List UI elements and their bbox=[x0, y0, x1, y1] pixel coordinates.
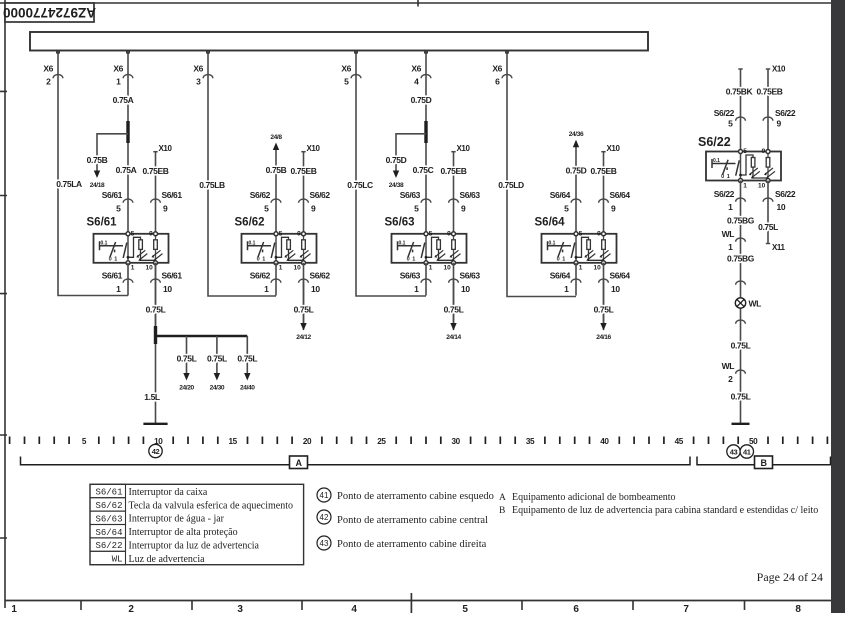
legend row WL bbox=[90, 551, 205, 565]
svg-text:0.75EB: 0.75EB bbox=[291, 166, 317, 176]
bottom column ticks bbox=[81, 601, 745, 611]
svg-text:WL: WL bbox=[722, 361, 735, 371]
svg-text:42: 42 bbox=[320, 513, 329, 522]
svg-text:S6/61: S6/61 bbox=[162, 190, 183, 200]
wire 0.75L from S6/61 pin10 bbox=[155, 263, 157, 424]
svg-text:S6/61: S6/61 bbox=[87, 217, 118, 229]
svg-text:2: 2 bbox=[128, 604, 134, 613]
wire S6/61 pin10 lead bbox=[155, 263, 157, 330]
wire 0.75LC (X6/5 to S6/63 pin1) bbox=[356, 62, 426, 296]
drawing number box AZ9724770000 (rotated 180) bbox=[3, 3, 96, 22]
svg-text:S6/62: S6/62 bbox=[250, 190, 271, 200]
svg-text:S6/22: S6/22 bbox=[698, 135, 731, 149]
svg-text:S6/22: S6/22 bbox=[775, 189, 796, 199]
svg-text:5: 5 bbox=[728, 119, 733, 129]
svg-text:0.75L: 0.75L bbox=[731, 392, 751, 402]
connector (unlabelled) bbox=[736, 281, 746, 285]
terminal X10 stub feeding S6/63 pin9 bbox=[451, 144, 470, 234]
svg-text:AZ9724770000: AZ9724770000 bbox=[3, 5, 96, 20]
svg-text:4: 4 bbox=[351, 604, 357, 613]
connector S6/22 pin 5 bbox=[714, 108, 746, 129]
svg-text:X6: X6 bbox=[113, 64, 123, 74]
svg-text:S6/63: S6/63 bbox=[460, 271, 481, 281]
svg-text:Ponto de aterramento cabine es: Ponto de aterramento cabine esquedo bbox=[337, 491, 494, 502]
connector strip X6 (bus bar) bbox=[30, 32, 648, 51]
svg-text:0.75LC: 0.75LC bbox=[347, 180, 373, 190]
connector WL pin 2 bbox=[722, 361, 746, 384]
svg-text:Equipamento adicional de bombe: Equipamento adicional de bombeamento bbox=[512, 492, 676, 503]
svg-text:0.75L: 0.75L bbox=[237, 354, 257, 364]
wire 0.75A from X6/1 bbox=[127, 62, 129, 234]
svg-text:9: 9 bbox=[163, 204, 168, 214]
svg-text:9: 9 bbox=[461, 204, 466, 214]
svg-text:0.75BG: 0.75BG bbox=[727, 254, 755, 264]
svg-text:5: 5 bbox=[264, 204, 269, 214]
svg-text:50: 50 bbox=[749, 437, 758, 446]
border frame top line bbox=[0, 2, 831, 4]
bracket B (range) bbox=[697, 456, 831, 469]
top column tick bbox=[417, 0, 419, 7]
svg-text:X10: X10 bbox=[457, 144, 471, 153]
bottom column rule bbox=[5, 600, 831, 602]
connector S6/63 pin 9 bbox=[449, 190, 481, 214]
legend ground point 43 bbox=[317, 536, 487, 550]
wire S6/62 pin10 lead bbox=[303, 263, 305, 330]
svg-text:Page 24 of 24: Page 24 of 24 bbox=[757, 570, 823, 584]
svg-text:X11: X11 bbox=[772, 243, 786, 252]
wire 0.75L branch to 24/20 bbox=[177, 336, 197, 392]
svg-text:WL: WL bbox=[722, 229, 735, 239]
wire 0.75LB (X6/3 to S6/62 pin1) bbox=[208, 62, 276, 296]
svg-text:0.75L: 0.75L bbox=[294, 305, 314, 315]
connector S6/62 pin 9 bbox=[299, 190, 331, 214]
svg-text:24/38: 24/38 bbox=[389, 182, 404, 189]
wire 0.75BK to S6/22 pin5 bbox=[738, 69, 742, 152]
svg-text:S6/64: S6/64 bbox=[95, 528, 122, 538]
svg-text:5: 5 bbox=[462, 604, 468, 613]
wire 0.75D from 24/36 to S6/64 pin5 bbox=[575, 142, 577, 234]
connector S6/22 pin 1 bbox=[714, 189, 746, 212]
wire 0.75BG from S6/22 pin1 bbox=[740, 181, 742, 424]
svg-text:Tecla da valvula esferica de a: Tecla da valvula esferica de aquecimento bbox=[129, 500, 294, 511]
svg-text:10: 10 bbox=[154, 437, 163, 446]
connector S6/62 pin 5 bbox=[250, 190, 281, 214]
svg-text:1: 1 bbox=[728, 202, 733, 212]
wire 0.75L to 24/16 bbox=[594, 280, 614, 341]
svg-text:S6/62: S6/62 bbox=[235, 217, 265, 229]
svg-text:4: 4 bbox=[414, 77, 419, 87]
svg-text:S6/62: S6/62 bbox=[250, 271, 271, 281]
svg-text:Ponto de aterramento cabine di: Ponto de aterramento cabine direita bbox=[337, 539, 487, 550]
svg-text:Interruptor de alta proteção: Interruptor de alta proteção bbox=[129, 527, 238, 538]
connector X6 pin 4 bbox=[411, 50, 431, 86]
svg-text:S6/61: S6/61 bbox=[102, 271, 123, 281]
bracket A (range) bbox=[21, 456, 691, 469]
wire S6/64 pin10 lead bbox=[603, 263, 605, 330]
svg-text:5: 5 bbox=[414, 204, 419, 214]
svg-text:Ponto de aterramento cabine ce: Ponto de aterramento cabine central bbox=[337, 515, 488, 526]
wire S6/64 pin1 lead bbox=[575, 263, 577, 296]
svg-text:1: 1 bbox=[414, 284, 419, 294]
ground point 42 bbox=[149, 444, 162, 457]
junction bar (ground distribution) bbox=[154, 326, 157, 344]
svg-text:43: 43 bbox=[320, 539, 329, 548]
svg-text:Equipamento de luz de adverten: Equipamento de luz de advertencia para c… bbox=[512, 505, 818, 516]
switch S6/62 bbox=[235, 217, 317, 272]
svg-text:0.75D: 0.75D bbox=[566, 166, 587, 176]
svg-text:5: 5 bbox=[116, 204, 121, 214]
junction bar on 0.75A bbox=[126, 121, 129, 143]
svg-text:15: 15 bbox=[228, 437, 237, 446]
svg-text:40: 40 bbox=[600, 437, 609, 446]
svg-text:10: 10 bbox=[311, 284, 320, 294]
legend row S6/61 bbox=[90, 484, 208, 498]
ground point 43 bbox=[727, 445, 740, 458]
svg-text:24/8: 24/8 bbox=[270, 134, 282, 141]
legend row S6/22 bbox=[90, 538, 260, 552]
ruler scale bbox=[10, 437, 828, 447]
switch S6/64 bbox=[535, 217, 617, 272]
svg-text:10: 10 bbox=[163, 284, 172, 294]
connector S6/63 pin 5 bbox=[400, 190, 431, 214]
svg-text:X10: X10 bbox=[159, 144, 173, 153]
svg-text:X10: X10 bbox=[607, 144, 621, 153]
ground terminal bar (cab left/right) bbox=[732, 423, 750, 425]
svg-text:24/12: 24/12 bbox=[296, 334, 311, 341]
svg-text:S6/63: S6/63 bbox=[460, 190, 481, 200]
legend row S6/63 bbox=[90, 511, 225, 525]
svg-text:0.75D: 0.75D bbox=[411, 95, 432, 105]
svg-text:A: A bbox=[499, 493, 506, 503]
svg-text:X10: X10 bbox=[307, 144, 321, 153]
svg-text:X6: X6 bbox=[411, 64, 421, 74]
connector S6/64 pin 1 bbox=[550, 271, 581, 295]
svg-text:X6: X6 bbox=[341, 64, 351, 74]
svg-text:1: 1 bbox=[728, 242, 733, 252]
wire 0.75L branch to 24/40 bbox=[237, 336, 257, 392]
svg-text:6: 6 bbox=[573, 604, 579, 613]
connector S6/62 pin 10 bbox=[299, 271, 331, 295]
wire 0.75D branch to ground 24/38 bbox=[396, 134, 426, 171]
svg-text:30: 30 bbox=[452, 437, 461, 446]
svg-text:X10: X10 bbox=[772, 65, 786, 74]
legend item A bbox=[499, 492, 676, 503]
svg-text:S6/62: S6/62 bbox=[310, 271, 331, 281]
svg-text:3: 3 bbox=[196, 77, 201, 87]
svg-text:S6/61: S6/61 bbox=[162, 271, 183, 281]
connector S6/63 pin 1 bbox=[400, 271, 431, 295]
svg-text:X6: X6 bbox=[193, 64, 203, 74]
svg-text:2: 2 bbox=[46, 77, 51, 87]
wire S6/62 pin1 lead bbox=[275, 263, 277, 296]
terminal X10 stub feeding S6/64 pin9 bbox=[601, 144, 620, 234]
svg-text:S6/63: S6/63 bbox=[400, 271, 421, 281]
svg-text:S6/22: S6/22 bbox=[714, 108, 735, 118]
svg-text:S6/22: S6/22 bbox=[775, 108, 796, 118]
connector S6/22 pin 9 bbox=[763, 108, 796, 129]
svg-text:A: A bbox=[295, 458, 302, 468]
svg-text:0.75EB: 0.75EB bbox=[143, 166, 169, 176]
svg-text:S6/22: S6/22 bbox=[95, 541, 122, 551]
svg-text:B: B bbox=[760, 458, 767, 468]
svg-text:S6/61: S6/61 bbox=[102, 190, 123, 200]
svg-text:S6/64: S6/64 bbox=[610, 271, 631, 281]
legend ground point 42 bbox=[317, 510, 488, 526]
wire S6/61 pin1 lead bbox=[127, 263, 129, 296]
terminal X11 bbox=[766, 243, 786, 252]
wire 0.75L branch to 24/30 bbox=[207, 336, 227, 392]
svg-text:41: 41 bbox=[320, 491, 329, 500]
svg-text:25: 25 bbox=[377, 437, 386, 446]
svg-text:S6/64: S6/64 bbox=[535, 217, 566, 229]
svg-text:0.75LD: 0.75LD bbox=[498, 180, 524, 190]
svg-text:9: 9 bbox=[777, 119, 782, 129]
svg-text:S6/22: S6/22 bbox=[714, 189, 735, 199]
svg-text:7: 7 bbox=[683, 604, 689, 613]
svg-text:WL: WL bbox=[749, 299, 762, 309]
svg-text:S6/62: S6/62 bbox=[310, 190, 331, 200]
warning lamp WL bbox=[735, 298, 761, 309]
svg-text:0.75L: 0.75L bbox=[594, 305, 614, 315]
svg-text:24/14: 24/14 bbox=[446, 334, 461, 341]
svg-text:1: 1 bbox=[564, 284, 569, 294]
svg-text:S6/63: S6/63 bbox=[400, 190, 421, 200]
svg-text:24/18: 24/18 bbox=[90, 182, 105, 189]
svg-text:6: 6 bbox=[495, 77, 500, 87]
svg-text:0.75D: 0.75D bbox=[386, 155, 407, 165]
left row ticks bbox=[0, 91, 7, 538]
svg-text:Luz de advertencia: Luz de advertencia bbox=[129, 554, 206, 565]
switch S6/63 bbox=[385, 217, 467, 272]
wire 0.75LA (X6/2 to S6/61 pin1) bbox=[58, 62, 128, 296]
svg-text:0.75LB: 0.75LB bbox=[199, 180, 225, 190]
legend ground point 41 bbox=[317, 488, 494, 502]
wire 0.75B from 24/8 to S6/62 pin5 bbox=[275, 145, 277, 234]
svg-text:43: 43 bbox=[730, 448, 738, 457]
svg-text:24/40: 24/40 bbox=[240, 385, 255, 392]
wire 0.75L to 24/12 bbox=[294, 280, 314, 341]
connector X6 pin 1 bbox=[113, 50, 133, 86]
svg-text:0.75L: 0.75L bbox=[177, 354, 197, 364]
wire 0.75B branch to ground 24/18 bbox=[97, 134, 128, 171]
svg-text:1.5L: 1.5L bbox=[144, 392, 160, 402]
svg-text:Interruptor da caixa: Interruptor da caixa bbox=[129, 487, 208, 498]
wire S6/63 pin10 lead bbox=[453, 263, 455, 330]
connector S6/61 pin 5 bbox=[102, 190, 133, 214]
svg-text:5: 5 bbox=[564, 204, 569, 214]
svg-text:41: 41 bbox=[743, 448, 751, 457]
svg-text:S6/61: S6/61 bbox=[95, 488, 122, 498]
svg-text:S6/64: S6/64 bbox=[550, 271, 571, 281]
terminal X10 stub feeding S6/61 pin9 bbox=[153, 144, 172, 234]
right dark page strip bbox=[831, 0, 845, 613]
wire 0.75L from S6/22 pin10 to X11 bbox=[767, 181, 769, 244]
svg-text:2: 2 bbox=[728, 374, 733, 384]
connector S6/64 pin 5 bbox=[550, 190, 581, 214]
svg-text:10: 10 bbox=[461, 284, 470, 294]
svg-text:0.75L: 0.75L bbox=[758, 222, 778, 232]
wire 0.75D from X6/4 bbox=[425, 62, 427, 234]
svg-text:S6/62: S6/62 bbox=[95, 501, 122, 511]
svg-text:0.75C: 0.75C bbox=[413, 165, 434, 175]
junction bar on 0.75D bbox=[424, 121, 427, 143]
svg-text:0.75BK: 0.75BK bbox=[726, 87, 754, 97]
connector X6 pin 3 bbox=[193, 50, 213, 86]
connector S6/61 pin 1 bbox=[102, 271, 133, 295]
svg-text:42: 42 bbox=[152, 447, 160, 456]
switch S6/22 bbox=[698, 135, 781, 189]
svg-text:24/20: 24/20 bbox=[179, 385, 194, 392]
legend table bbox=[90, 484, 304, 565]
svg-text:B: B bbox=[499, 506, 505, 516]
svg-text:24/36: 24/36 bbox=[569, 131, 584, 138]
svg-text:3: 3 bbox=[237, 604, 243, 613]
legend row S6/64 bbox=[90, 525, 238, 539]
svg-text:0.75EB: 0.75EB bbox=[591, 166, 617, 176]
connector S6/64 pin 9 bbox=[599, 190, 631, 214]
left frame line bbox=[4, 0, 6, 608]
svg-text:9: 9 bbox=[611, 204, 616, 214]
svg-text:Interruptor de água - jar: Interruptor de água - jar bbox=[129, 514, 225, 525]
connector X6 pin 2 bbox=[43, 50, 63, 86]
connector S6/62 pin 1 bbox=[250, 271, 281, 295]
svg-text:45: 45 bbox=[675, 437, 684, 446]
svg-text:1: 1 bbox=[116, 77, 121, 87]
connector WL pin 1 bbox=[722, 229, 746, 252]
wire S6/63 pin1 lead bbox=[425, 263, 427, 296]
switch S6/61 bbox=[87, 217, 169, 272]
svg-text:0.75L: 0.75L bbox=[146, 305, 166, 315]
wire 0.75L to 24/14 bbox=[444, 280, 464, 341]
terminal X10 stub feeding S6/62 pin9 bbox=[301, 144, 320, 234]
svg-text:0.75L: 0.75L bbox=[207, 354, 227, 364]
svg-text:1: 1 bbox=[11, 604, 17, 613]
svg-text:24/30: 24/30 bbox=[210, 385, 225, 392]
svg-text:Interruptor da luz de adverten: Interruptor da luz de advertencia bbox=[129, 541, 260, 552]
svg-text:1: 1 bbox=[264, 284, 269, 294]
svg-text:10: 10 bbox=[611, 284, 620, 294]
terminal X10 stub (S6/22 pin9) bbox=[766, 65, 786, 152]
svg-text:0.75BG: 0.75BG bbox=[727, 216, 755, 226]
svg-text:5: 5 bbox=[344, 77, 349, 87]
ground point 41 bbox=[740, 445, 753, 458]
svg-text:0.75A: 0.75A bbox=[116, 165, 137, 175]
connector S6/64 pin 10 bbox=[599, 271, 631, 295]
svg-text:X6: X6 bbox=[492, 64, 502, 74]
legend row S6/62 bbox=[90, 498, 293, 512]
svg-text:S6/63: S6/63 bbox=[95, 514, 122, 524]
ground terminal bar (cab central) bbox=[143, 423, 167, 425]
connector X6 pin 6 bbox=[492, 50, 512, 86]
connector S6/61 pin 10 bbox=[151, 271, 183, 295]
legend item B bbox=[499, 505, 818, 516]
svg-text:S6/64: S6/64 bbox=[550, 190, 571, 200]
connector S6/61 pin 9 bbox=[151, 190, 183, 214]
svg-text:WL: WL bbox=[112, 555, 123, 565]
connector S6/63 pin 10 bbox=[449, 271, 481, 295]
svg-text:X6: X6 bbox=[43, 64, 53, 74]
svg-text:24/16: 24/16 bbox=[596, 334, 611, 341]
svg-text:35: 35 bbox=[526, 437, 535, 446]
svg-text:0.75B: 0.75B bbox=[87, 155, 108, 165]
svg-text:9: 9 bbox=[311, 204, 316, 214]
svg-text:8: 8 bbox=[795, 604, 801, 613]
svg-text:10: 10 bbox=[777, 202, 786, 212]
svg-text:20: 20 bbox=[303, 437, 312, 446]
connector S6/22 pin 10 bbox=[763, 189, 796, 212]
svg-text:0.75LA: 0.75LA bbox=[56, 179, 82, 189]
connector (unlabelled) bbox=[736, 320, 746, 324]
svg-text:0.75L: 0.75L bbox=[444, 305, 464, 315]
wire 0.75LD (X6/6 to S6/64 pin1) bbox=[507, 62, 576, 297]
svg-text:0.75EB: 0.75EB bbox=[757, 87, 783, 97]
svg-text:S6/63: S6/63 bbox=[385, 217, 415, 229]
svg-text:1: 1 bbox=[116, 284, 121, 294]
svg-text:0.75A: 0.75A bbox=[113, 95, 134, 105]
connector X6 pin 5 bbox=[341, 50, 361, 86]
svg-text:S6/64: S6/64 bbox=[610, 190, 631, 200]
svg-text:0.75EB: 0.75EB bbox=[441, 166, 467, 176]
svg-text:0.75L: 0.75L bbox=[731, 341, 751, 351]
svg-text:0.75B: 0.75B bbox=[266, 165, 287, 175]
